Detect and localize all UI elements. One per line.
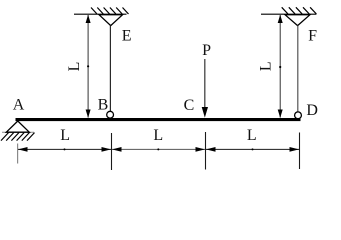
svg-text:L: L [257,61,274,71]
support A triangle [6,121,29,132]
dimension line L (right hanger) [279,15,281,118]
witness line at B [111,133,113,170]
hanger bar F-D [297,26,299,113]
witness line at D [299,133,301,170]
svg-text:P: P [202,42,211,59]
svg-text:E: E [122,28,132,45]
support A hatching [1,133,35,141]
dimension line span B-C [112,148,205,150]
svg-text:C: C [184,97,195,114]
svg-text:A: A [13,97,25,114]
hinge circle D [295,112,302,119]
support E triangle [99,15,123,26]
svg-text:L: L [247,127,257,144]
dimension line span A-B [18,148,111,150]
hinge circle B [107,111,114,118]
support F hatching [282,7,317,14]
svg-text:D: D [306,102,318,119]
support F triangle [285,15,310,26]
svg-text:L: L [153,127,163,144]
dimension line span C-D [206,148,299,150]
beam A-D [16,118,301,121]
svg-text:L: L [66,62,83,72]
support E hatching [91,8,129,15]
svg-text:F: F [308,27,317,44]
svg-text:B: B [98,97,109,114]
support F ceiling line [261,13,316,15]
support A base line [2,131,34,133]
witness line at C [205,132,207,170]
dimension line L (left hanger) [87,15,89,118]
hanger bar E-B [109,26,111,112]
svg-text:L: L [60,127,70,144]
force P arrow [204,59,206,108]
witness line at A [17,144,19,164]
support E ceiling line [74,13,127,15]
